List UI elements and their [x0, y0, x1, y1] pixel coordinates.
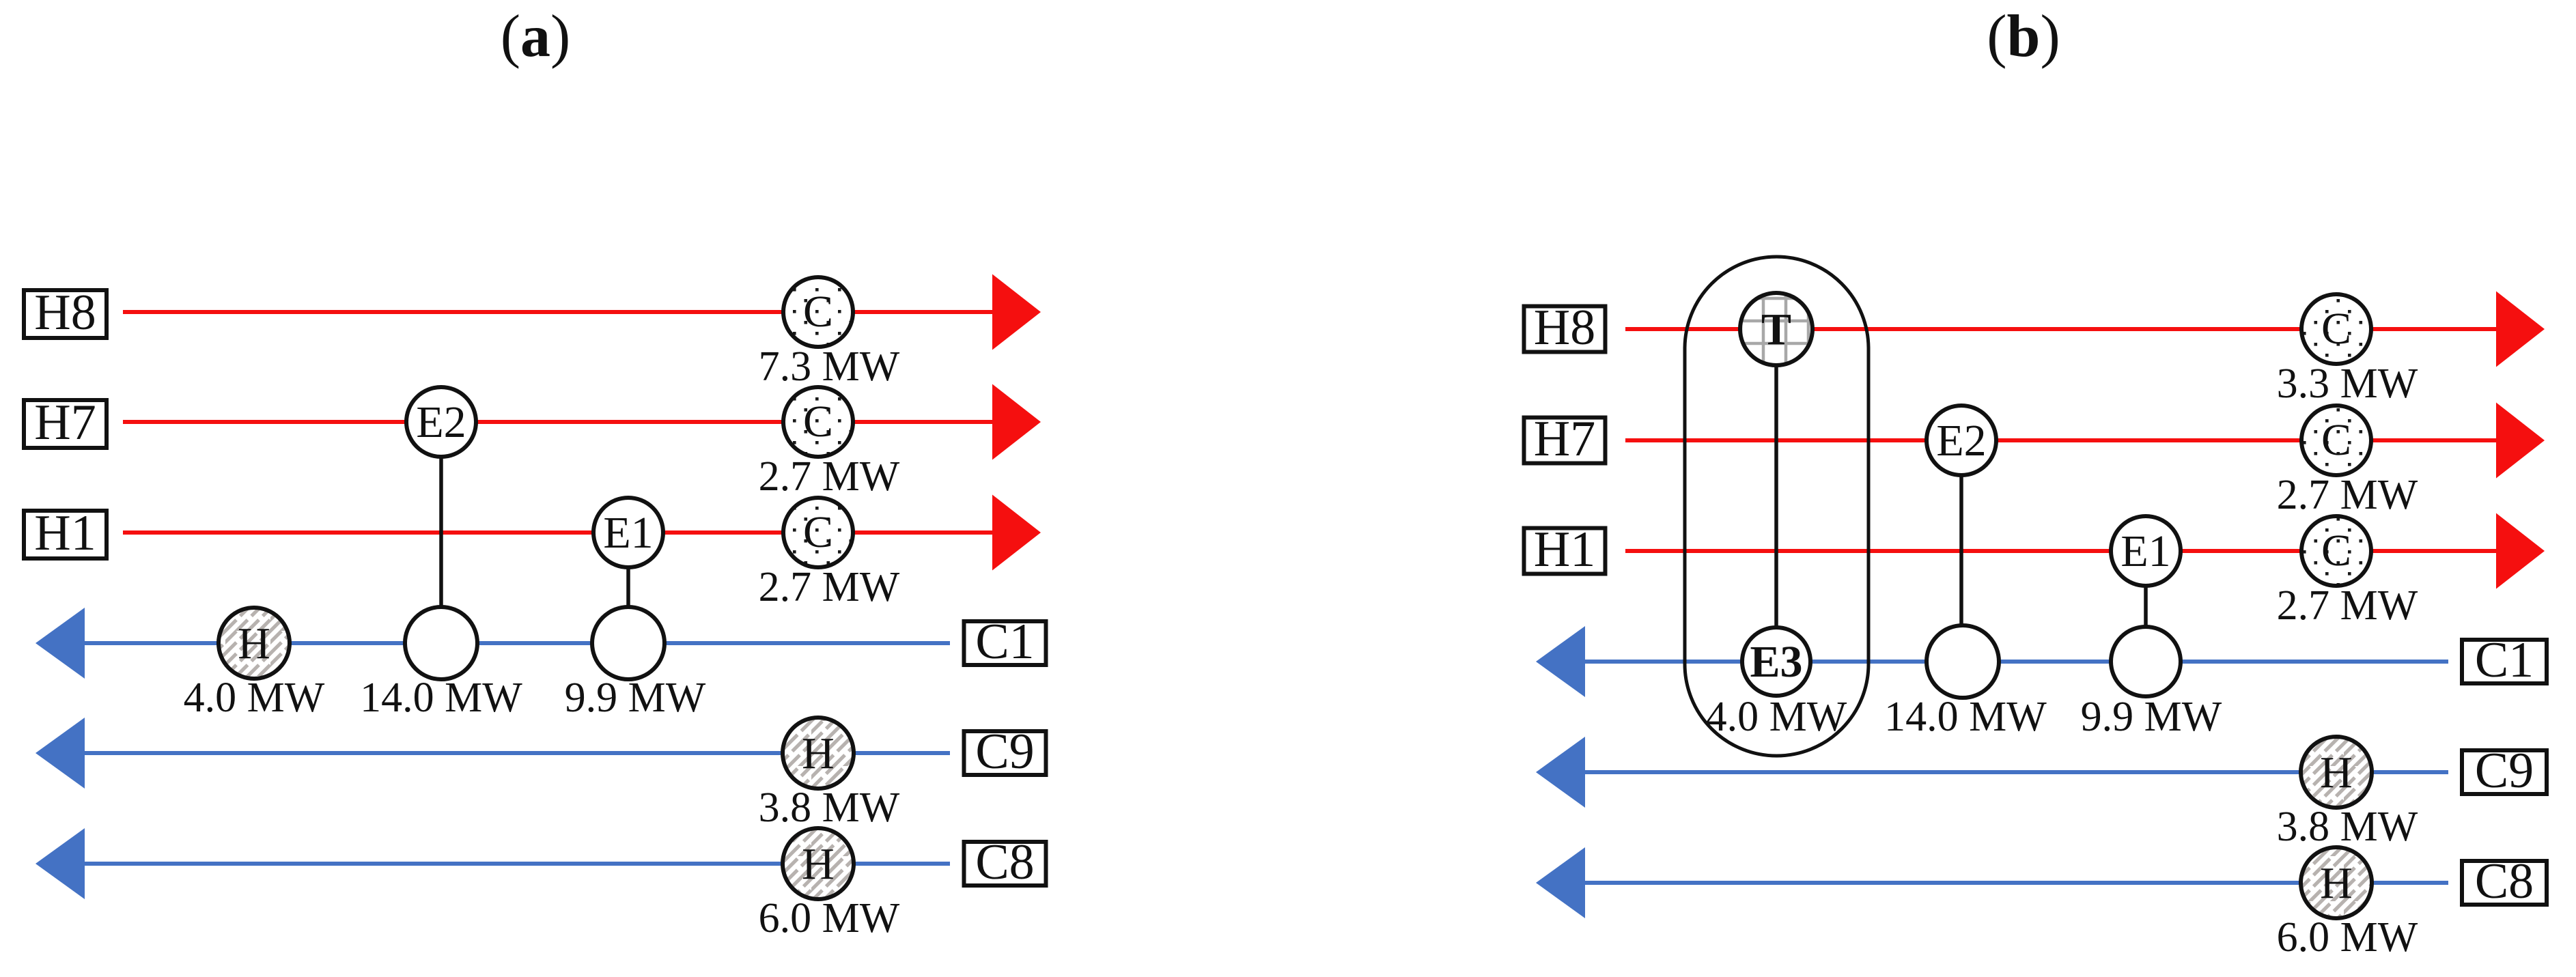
svg-text:H: H: [2320, 748, 2353, 797]
svg-text:4.0 MW: 4.0 MW: [1706, 694, 1847, 740]
turbine T on H8 (b): [1740, 293, 1812, 365]
svg-text:(b): (b): [1987, 3, 2060, 70]
cooler C on H1 (a): [783, 498, 853, 567]
svg-text:H: H: [2320, 858, 2353, 908]
wire: E2 connector (b): [1959, 440, 1963, 662]
stadium enclosure around T and E3 (b): [1685, 257, 1868, 756]
arrow: C9 outlet (b): [1536, 737, 1585, 808]
wire: E1 connector (b): [2144, 551, 2148, 662]
wire: hot stream H7 line (a): [123, 420, 995, 424]
cooler C on H1 (b): [2301, 516, 2371, 586]
node: stream label C1 (a): [964, 614, 1046, 670]
arrow: H8 outlet (b): [2496, 292, 2545, 367]
wire: cold stream C1 line (b): [1582, 660, 2448, 664]
cooler C on H8 (a): [783, 277, 853, 347]
svg-text:C8: C8: [2475, 853, 2534, 909]
wire: cold stream C8 line (a): [82, 862, 950, 866]
svg-text:E2: E2: [1936, 416, 1986, 466]
exchanger E2 cold end (b): [1927, 625, 1999, 698]
wire: T-E3 connector (b): [1774, 329, 1778, 662]
arrow: H1 outlet (b): [2496, 513, 2545, 589]
arrow: H7 outlet (a): [992, 384, 1041, 460]
svg-text:C: C: [2321, 415, 2351, 465]
arrow: C1 outlet (b): [1536, 626, 1585, 697]
svg-text:C1: C1: [975, 614, 1034, 670]
svg-text:C: C: [803, 287, 833, 337]
node: stream label C1 (b): [2462, 632, 2547, 688]
node: stream label H1 (a): [24, 505, 107, 561]
node: stream label H1 (b): [1524, 522, 1606, 578]
svg-text:H7: H7: [34, 395, 96, 451]
heater H on C9 (a): [783, 718, 854, 789]
svg-text:E2: E2: [416, 397, 466, 447]
svg-text:9.9 MW: 9.9 MW: [2081, 694, 2222, 740]
exchanger E1 cold end (b): [2111, 627, 2181, 696]
node: stream label H8 (b): [1524, 300, 1606, 356]
node: stream label H8 (a): [24, 285, 107, 341]
wire: hot stream H8 line (b): [1625, 327, 2499, 331]
heater H on C8 (a): [783, 828, 854, 899]
arrow: C1 outlet (a): [36, 608, 85, 679]
node: stream label C8 (a): [964, 834, 1046, 890]
svg-text:H8: H8: [1534, 300, 1595, 356]
wire: E1 connector (a): [626, 533, 630, 643]
svg-text:14.0 MW: 14.0 MW: [1884, 694, 2047, 740]
svg-text:H7: H7: [1534, 411, 1595, 467]
cooler C on H7 (a): [783, 387, 853, 457]
node: stream label C9 (a): [964, 724, 1046, 780]
svg-text:2.7 MW: 2.7 MW: [2277, 582, 2418, 629]
cooler C on H8 (b): [2301, 294, 2371, 364]
svg-text:E1: E1: [603, 508, 653, 558]
svg-text:C: C: [803, 397, 833, 447]
svg-text:H: H: [802, 839, 835, 889]
svg-text:E1: E1: [2120, 526, 2170, 576]
svg-text:C8: C8: [975, 834, 1034, 890]
svg-text:H1: H1: [1534, 522, 1595, 578]
svg-text:9.9 MW: 9.9 MW: [565, 675, 706, 721]
wire: hot stream H1 line (b): [1625, 549, 2499, 553]
svg-text:2.7 MW: 2.7 MW: [759, 453, 900, 500]
svg-text:3.8 MW: 3.8 MW: [2277, 804, 2418, 850]
arrow: H8 outlet (a): [992, 274, 1041, 350]
svg-text:C9: C9: [975, 724, 1034, 780]
svg-text:14.0 MW: 14.0 MW: [360, 675, 522, 721]
exchanger E1 hot end (b): [2111, 516, 2181, 586]
exchanger E2 cold end (a): [405, 607, 477, 679]
wire: cold stream C9 line (b): [1582, 770, 2448, 774]
svg-text:(a): (a): [501, 3, 571, 70]
cooler C on H7 (b): [2301, 406, 2371, 475]
svg-text:H: H: [802, 728, 835, 778]
arrow: H7 outlet (b): [2496, 403, 2545, 479]
wire: cold stream C8 line (b): [1582, 881, 2448, 885]
node: stream label H7 (b): [1524, 411, 1606, 467]
svg-text:C: C: [2321, 526, 2351, 576]
wire: E2 connector (a): [439, 422, 443, 643]
arrow: C9 outlet (a): [36, 718, 85, 789]
svg-text:C: C: [803, 507, 833, 557]
svg-text:4.0 MW: 4.0 MW: [184, 675, 325, 721]
wire: hot stream H1 line (a): [123, 530, 995, 535]
svg-text:C1: C1: [2475, 632, 2534, 688]
wire: cold stream C9 line (a): [82, 751, 950, 755]
exchanger E1 cold end (a): [592, 607, 664, 679]
heater H on C9 (b): [2301, 737, 2372, 808]
svg-text:6.0 MW: 6.0 MW: [759, 895, 900, 941]
svg-text:C9: C9: [2475, 743, 2534, 799]
svg-text:C: C: [2321, 304, 2351, 354]
svg-text:H1: H1: [34, 505, 96, 561]
svg-text:H: H: [238, 619, 270, 668]
arrow: C8 outlet (b): [1536, 847, 1585, 918]
svg-text:H8: H8: [34, 285, 96, 341]
node: stream label C8 (b): [2462, 853, 2547, 909]
svg-text:3.8 MW: 3.8 MW: [759, 784, 900, 831]
svg-text:6.0 MW: 6.0 MW: [2277, 914, 2418, 961]
heater H on C1 (a): [219, 608, 290, 679]
svg-text:E3: E3: [1750, 637, 1802, 687]
svg-text:2.7 MW: 2.7 MW: [759, 564, 900, 610]
exchanger E2 hot end (a): [406, 387, 476, 457]
svg-text:7.3 MW: 7.3 MW: [759, 343, 900, 390]
arrow: C8 outlet (a): [36, 828, 85, 899]
svg-text:3.3 MW: 3.3 MW: [2277, 360, 2418, 407]
wire: cold stream C1 line (a): [82, 641, 950, 645]
heater H on C8 (b): [2301, 847, 2372, 918]
exchanger E3 cold end (b): [1742, 627, 1810, 696]
node: stream label C9 (b): [2462, 743, 2547, 799]
svg-text:2.7 MW: 2.7 MW: [2277, 472, 2418, 518]
arrow: H1 outlet (a): [992, 495, 1041, 571]
wire: hot stream H7 line (b): [1625, 438, 2499, 442]
exchanger E2 hot end (b): [1927, 406, 1996, 475]
wire: hot stream H8 line (a): [123, 310, 995, 314]
exchanger E1 hot end (a): [593, 498, 663, 567]
node: stream label H7 (a): [24, 395, 107, 451]
svg-text:T: T: [1761, 305, 1791, 354]
